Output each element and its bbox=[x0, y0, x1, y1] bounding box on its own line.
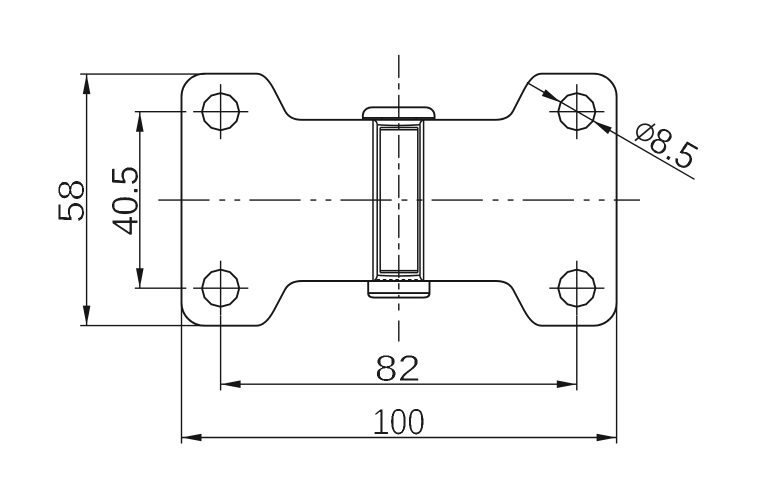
dim 40.5 line bbox=[139, 112, 141, 289]
dim 40.5 extension lines bbox=[135, 112, 187, 289]
dim 82 line bbox=[221, 383, 577, 385]
bottom collar bbox=[368, 281, 429, 298]
top-left hole crosshair bbox=[220, 84, 222, 139]
stem bottom transition bbox=[374, 271, 423, 281]
hole crosshairs bbox=[193, 84, 604, 316]
bottom-left hole crosshair bbox=[220, 261, 222, 316]
stem cap bbox=[363, 107, 435, 119]
dim 58 line bbox=[86, 74, 88, 326]
hole top-right bbox=[558, 93, 595, 130]
svg-text:82: 82 bbox=[375, 348, 421, 389]
vertical centerline bbox=[398, 55, 400, 298]
dim 58 arrows bbox=[83, 74, 91, 94]
dia 8.5 arrows bbox=[542, 89, 561, 102]
hole bottom-left bbox=[202, 270, 239, 307]
plate outline bbox=[182, 74, 617, 326]
dim 100 arrows bbox=[182, 434, 202, 442]
dim 100 line bbox=[182, 437, 617, 439]
bottom-right hole crosshair bbox=[576, 261, 578, 316]
horizontal centerline bbox=[158, 199, 640, 201]
stem neck under cap bbox=[374, 118, 423, 130]
hole top-left bbox=[202, 93, 239, 130]
svg-text:58: 58 bbox=[51, 179, 92, 223]
top-right hole crosshair bbox=[576, 84, 578, 139]
svg-text:40.5: 40.5 bbox=[105, 166, 146, 236]
hole bottom-right bbox=[558, 270, 595, 307]
dim 82 arrows bbox=[221, 380, 241, 388]
stem tube walls bbox=[373, 120, 424, 281]
dia 8.5 leader line bbox=[527, 83, 695, 180]
dim 82 extension lines bbox=[221, 316, 577, 390]
dia 8.5 text bbox=[628, 110, 705, 178]
dim 40.5 arrows bbox=[136, 112, 144, 132]
dim 58 extension lines bbox=[80, 74, 205, 326]
svg-text:100: 100 bbox=[372, 402, 425, 443]
dim 100 extension lines bbox=[182, 303, 617, 444]
thread marks bbox=[377, 279, 423, 281]
